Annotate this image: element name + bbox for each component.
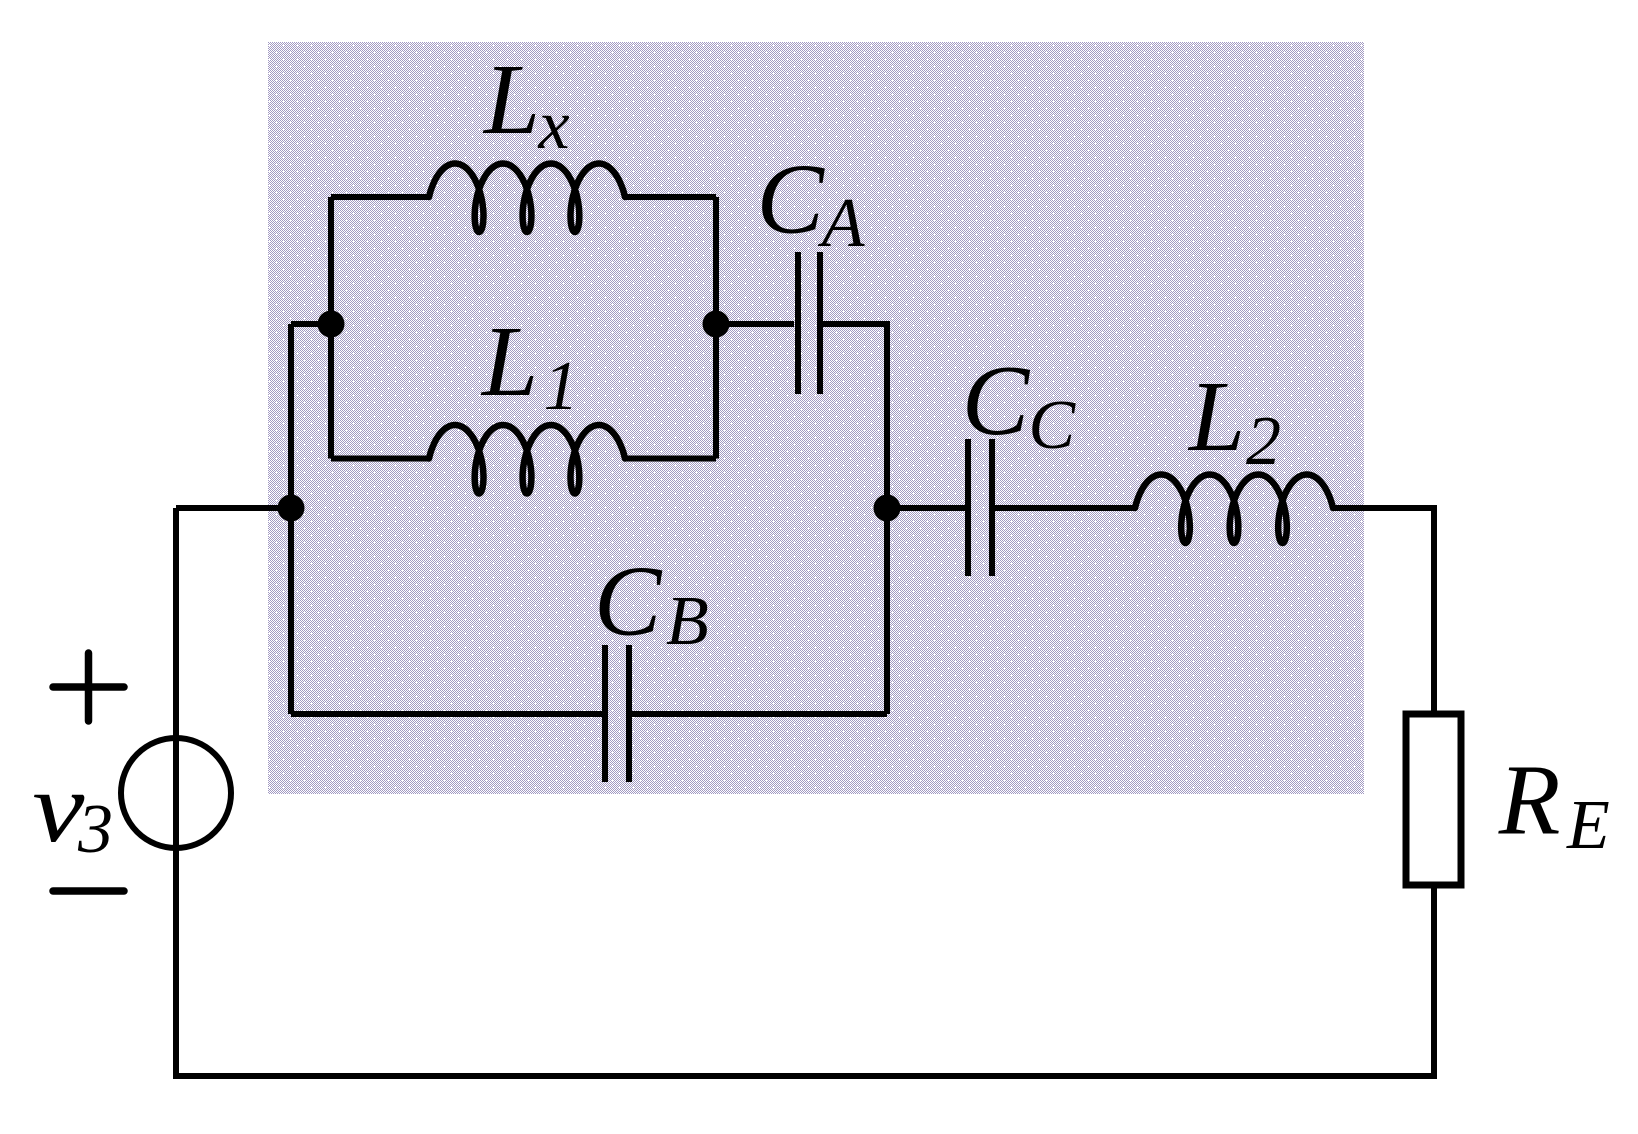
wire: L1 lead-out: [625, 456, 716, 462]
node N2: [703, 311, 730, 338]
wire: Lx lead-in: [331, 194, 429, 200]
label CC: [962, 344, 1077, 464]
wire: node N2 to CA left plate: [716, 321, 794, 327]
wire: RE top, top-right corner, to L2 right end: [1333, 508, 1434, 711]
wire: CC right plate to L2 left end: [995, 505, 1135, 511]
svg-text:B: B: [666, 583, 709, 660]
svg-text:A: A: [818, 185, 865, 262]
wire: left node stub: [176, 505, 291, 511]
wire: CB bottom right segment: [632, 711, 887, 717]
label CB: [594, 545, 709, 661]
wire: parallel loop left vertical: [328, 197, 334, 459]
svg-text:L: L: [482, 43, 540, 155]
svg-text:3: 3: [77, 791, 113, 868]
voltage source v3 circle: [121, 738, 231, 848]
label CA: [757, 143, 865, 263]
label L2: [1187, 360, 1281, 480]
label Lx: [482, 43, 570, 164]
node N4: [874, 495, 901, 522]
node N1: [318, 311, 345, 338]
wire: CA right plate through corner and mid node N4 down to CB right corner: [823, 324, 887, 714]
wire: jog from left vertical to node N1: [291, 321, 331, 327]
label L1: [480, 305, 579, 425]
svg-text:L: L: [1187, 360, 1245, 472]
svg-text:C: C: [962, 344, 1031, 456]
svg-text:1: 1: [544, 348, 579, 425]
svg-text:x: x: [538, 87, 570, 164]
resistor RE: [1406, 714, 1461, 885]
node N3: [278, 495, 305, 522]
capacitor CA: [798, 252, 820, 394]
inductor L1: [429, 425, 625, 494]
capacitor CC: [968, 439, 992, 576]
svg-text:v: v: [32, 751, 84, 863]
capacitor CB: [605, 645, 629, 782]
wire: parallel loop right vertical: [713, 197, 719, 459]
svg-text:E: E: [1566, 787, 1610, 864]
svg-text:2: 2: [1246, 403, 1281, 480]
minus sign of source polarity: [53, 887, 124, 895]
svg-text:C: C: [594, 545, 663, 657]
wire: source vertical through circle, bottom rail, up to RE bottom: [176, 508, 1434, 1076]
label RE: [1498, 744, 1610, 865]
shaded region highlight: [268, 42, 1364, 794]
wire: mid node N4 to CC left plate: [887, 505, 965, 511]
svg-text:C: C: [1028, 387, 1076, 464]
wire: CB bottom left segment: [291, 711, 602, 717]
wire: left vertical through node N3 down to CB left corner: [288, 324, 294, 714]
svg-text:L: L: [480, 305, 538, 417]
svg-text:C: C: [757, 143, 826, 255]
wire: Lx lead-out: [625, 194, 716, 200]
plus sign of source polarity: [53, 653, 124, 721]
inductor Lx: [429, 164, 625, 233]
label v3: [32, 751, 113, 868]
wire: L1 lead-in: [331, 456, 429, 462]
svg-text:R: R: [1498, 744, 1561, 856]
inductor L2: [1135, 475, 1333, 544]
